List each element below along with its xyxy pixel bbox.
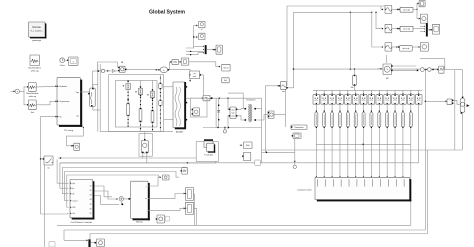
svg-text:Vab: Vab: [351, 87, 354, 89]
node title: [149, 10, 185, 16]
wire x376 branch: [375, 12, 383, 30]
load string LS14: [415, 90, 422, 163]
MPPT block pair: [204, 139, 215, 156]
svg-text:Ipv: Ipv: [76, 115, 78, 117]
wire x350.4 vertical: [349, 12, 351, 69]
wire DC bus left: [97, 64, 99, 132]
wire x287 vertical: [286, 6, 288, 86]
wire ctrl out3: [94, 196, 123, 206]
wire mux to scope3: [207, 49, 216, 51]
wire noise2 to PV Temperature: [36, 100, 57, 104]
wire bundle b2: [60, 161, 216, 188]
wire bundle b5: [67, 175, 161, 207]
wire corner y58.6: [420, 59, 445, 70]
row1 meter block: [420, 14, 427, 23]
sum S3: [160, 67, 167, 73]
svg-text:Un: Un: [59, 117, 61, 119]
load string LS5: [344, 90, 351, 177]
igbt leg3: [147, 81, 155, 111]
wire y152.3 stub: [262, 152, 295, 154]
load string LS6: [352, 90, 359, 177]
wire x265.3 vertical: [264, 86, 266, 153]
wire PV label to Pw block: [67, 127, 84, 147]
cap branch x218.7: [217, 98, 220, 127]
series component Z1: [229, 107, 238, 119]
svg-text:Ideal Random: Ideal Random: [28, 67, 41, 69]
load string LS12: [400, 90, 407, 177]
row1 wire c: [417, 9, 420, 19]
wire Z1 to T1: [237, 109, 244, 120]
subsystem PV string: [57, 78, 82, 132]
wire top dc feed: [93, 70, 102, 72]
wire long y162.8: [60, 162, 419, 164]
delay block: [181, 58, 189, 65]
wire feedback y62: [98, 62, 118, 71]
scope block low: [292, 133, 301, 138]
svg-text:Vpv: Vpv: [72, 183, 75, 185]
wire x371.8 branch: [372, 12, 384, 48]
block E scope: [156, 215, 165, 223]
inline tag block: [255, 160, 261, 165]
wire x216 vertical: [215, 98, 217, 127]
wire scope low down: [294, 138, 296, 162]
svg-text:Inverter: Inverter: [176, 131, 184, 134]
wire long y150: [262, 149, 463, 151]
controller block OnOff: [70, 180, 94, 224]
gain round A: [420, 68, 424, 72]
wire blockD out: [194, 194, 197, 225]
block aux display2: [222, 78, 230, 83]
wire load bottom bus: [316, 144, 411, 145]
wire converter bottom: [100, 131, 173, 133]
routing box VM2: [139, 134, 152, 157]
PI controller block: [190, 71, 201, 79]
wire ctrl out2: [94, 191, 118, 200]
snubber leg1: [127, 92, 130, 127]
load string LS10: [384, 90, 391, 177]
gain round B: [428, 68, 432, 72]
wire M1 out to inverter gate: [127, 69, 191, 81]
ground G1: [223, 127, 226, 133]
wire y233.5 long: [90, 150, 428, 239]
wire into sum S3: [156, 69, 161, 71]
transformer T1: [245, 100, 257, 123]
wire into machine: [377, 68, 382, 70]
wire long y158: [58, 157, 196, 159]
svg-text:S3: S3: [90, 195, 92, 197]
switch block SW1: [43, 156, 53, 169]
wire x454.8 down: [454, 70, 456, 150]
charge gain elem: [119, 197, 123, 204]
block two-out: [447, 99, 453, 105]
svg-text:Ts = 1e-005 s.: Ts = 1e-005 s.: [30, 31, 43, 33]
wire ctrl out1: [94, 186, 112, 197]
wire chain out: [444, 69, 455, 71]
wire bus feed elem V2: [353, 69, 357, 90]
row2 wire b: [413, 26, 425, 33]
wire bundle b1: [56, 159, 58, 183]
svg-text:Sun: Sun: [31, 112, 34, 114]
wire x261.5 vertical: [261, 98, 263, 163]
wire into battery: [124, 198, 131, 200]
wire machine top feed: [386, 55, 388, 63]
svg-text:Vb: Vb: [72, 194, 74, 196]
wire bundle b3: [62, 168, 186, 194]
wire bundle b4: [65, 172, 179, 201]
wire long top y6: [287, 5, 385, 7]
ground G2: [293, 163, 296, 169]
wire Gm bottom down: [461, 112, 463, 150]
wire bundle b6: [41, 212, 69, 215]
wire x92.5 down: [92, 71, 94, 88]
breaker block M1: [120, 62, 127, 73]
svg-text:[Vdc]: [Vdc]: [246, 145, 250, 147]
mux MX1: [205, 45, 207, 54]
wire Z2 to powermeter: [274, 113, 285, 115]
row1 wire b: [413, 2, 419, 10]
svg-text:Clock: Clock: [60, 65, 65, 67]
svg-text:Vdc: Vdc: [72, 213, 75, 215]
svg-text:Load bank control: Load bank control: [297, 189, 312, 192]
wire to delay block: [179, 61, 182, 63]
source Band Random noise 1: [26, 83, 39, 98]
wire last string down: [410, 144, 412, 225]
wire y230 long: [64, 230, 425, 240]
wire x285.4: [284, 89, 286, 127]
row2 wire a: [392, 28, 400, 30]
block C: [185, 188, 193, 201]
wire chain b: [431, 69, 438, 71]
load string LS9: [376, 90, 383, 177]
dc link elem top: [159, 75, 162, 90]
svg-text:S4: S4: [90, 199, 92, 201]
svg-text:S2: S2: [90, 190, 92, 192]
wire into switch: [40, 158, 43, 159]
svg-text:[Vdc]: [Vdc]: [173, 62, 177, 64]
machine out wires: [393, 66, 419, 71]
filter component: [192, 108, 200, 116]
wire inverter in bottom: [164, 119, 173, 121]
load string LS11: [392, 90, 399, 177]
wire y93 to T1: [228, 93, 243, 108]
goto Vdc read: [240, 142, 253, 149]
svg-text:white sig: white sig: [31, 69, 39, 72]
wire inverter in top: [164, 86, 173, 88]
routing box MPPT: [196, 142, 218, 162]
load string LS2: [321, 90, 328, 177]
filter box outline: [191, 98, 208, 117]
igbt leg2: [135, 81, 143, 109]
svg-text:On/Off Switch Controller: On/Off Switch Controller: [71, 221, 93, 224]
block D: [185, 202, 193, 214]
wire to Z1: [228, 98, 229, 129]
block A small: [163, 175, 170, 180]
svg-text:Ipv: Ipv: [72, 188, 74, 190]
bottom block F: [91, 239, 105, 247]
clock: [60, 58, 65, 67]
goto Vdc tag: [172, 60, 179, 65]
voltage measurement VM2: [141, 132, 148, 154]
machine block SM: [383, 64, 393, 80]
dc link elem bottom: [159, 78, 162, 132]
wire sum to noise sources: [20, 86, 29, 106]
snubber leg3: [151, 100, 154, 132]
powermeter block: [291, 125, 307, 130]
wire PV Vpv out: [80, 91, 89, 93]
svg-text:cont.: cont.: [193, 75, 197, 78]
load string LS3: [329, 90, 336, 177]
row2 scope: [432, 24, 439, 34]
wire long y69.1: [294, 68, 439, 69]
source Ideal Random white sig: [28, 55, 41, 72]
wire noise1 to PV Radiation: [36, 85, 57, 87]
wire y225.3 long: [57, 224, 411, 226]
wire x462.4 down: [455, 70, 463, 96]
wire sum2 to gain: [105, 70, 112, 71]
svg-text:powergui: powergui: [32, 39, 41, 42]
wire gain to breaker M1: [115, 67, 119, 72]
row1 gain block: [400, 7, 413, 12]
chain block: [439, 66, 444, 73]
row3 gain block: [400, 46, 413, 51]
svg-text:Discrete: Discrete: [32, 26, 41, 29]
wire VM1 stubs: [93, 85, 100, 111]
scope1: [199, 21, 205, 31]
svg-text:Vpv: Vpv: [76, 92, 79, 94]
block B small: [181, 168, 188, 174]
universal bridge Inverter: [173, 82, 187, 134]
wire delay to Vdc ref: [189, 62, 221, 68]
wire y101.3 to block: [425, 100, 447, 102]
mux MX2: [426, 23, 428, 36]
wire DC bus right: [99, 64, 101, 132]
load string LS1: [313, 90, 320, 177]
wire switch down: [44, 165, 46, 247]
load string LS8: [368, 90, 375, 177]
load bank control block: [297, 177, 411, 201]
svg-text:Vdc ref: Vdc ref: [223, 67, 229, 69]
mux bottom: [88, 239, 90, 247]
wire y240.3 arrow: [64, 239, 88, 241]
load string LS13: [407, 90, 414, 144]
wire to scope1: [194, 24, 198, 46]
row3 source block: [385, 43, 392, 52]
igbt leg1: [123, 81, 131, 104]
wire loop inner: [115, 81, 157, 128]
battery block: [131, 181, 150, 223]
meter elem Gm: [460, 96, 469, 113]
wire into RMS block: [265, 85, 280, 87]
svg-text:Powermeter: Powermeter: [294, 126, 304, 129]
wire PI out: [201, 75, 203, 95]
wire load bus y90.3: [313, 87, 422, 90]
row2 source block: [385, 24, 392, 33]
svg-text:Transformer: Transformer: [246, 100, 256, 102]
load string LS7: [360, 90, 367, 177]
svg-text:S7: S7: [90, 213, 92, 215]
scope2: [199, 33, 205, 39]
wire long y12.3: [294, 12, 373, 13]
wire batt out3: [148, 207, 185, 210]
gain small: [112, 69, 115, 72]
wire ports into controller: [57, 183, 68, 207]
wire mux feeds: [186, 46, 204, 56]
svg-text:PV string: PV string: [64, 129, 74, 132]
powergui block: [29, 22, 47, 42]
wire loop outer: [109, 75, 164, 132]
svg-text:white sig: white sig: [29, 95, 36, 98]
svg-text:Radiation: Radiation: [59, 85, 67, 88]
svg-text:rms: rms: [282, 91, 285, 93]
row1 scope top: [419, 0, 425, 6]
block Vdc ref display: [222, 64, 230, 71]
goto tag bottom-left: [49, 242, 55, 247]
svg-text:Global System: Global System: [149, 10, 185, 16]
display block: [69, 57, 79, 65]
svg-text:S5: S5: [90, 204, 92, 206]
load meter component Z2: [268, 111, 274, 118]
wire block to Gm: [453, 100, 459, 104]
wire T1 secondary: [256, 109, 267, 120]
row3 wire b: [412, 46, 420, 48]
wire trunk x40.5 to PV input 3: [41, 116, 58, 214]
aux block under: [242, 152, 251, 160]
source noise 2 Sun: [29, 100, 37, 114]
tiny tag near battery: [165, 216, 170, 221]
snubber leg2: [139, 97, 142, 132]
power calc block Pw: [72, 143, 79, 150]
wire batt out1: [148, 177, 160, 186]
wire to scope2: [193, 36, 198, 38]
wire into sum S1: [11, 90, 16, 92]
scope3: [216, 45, 222, 54]
row3 wire a: [392, 46, 400, 48]
RMS block: [280, 82, 286, 93]
load string LS4: [337, 90, 344, 177]
wire AC main y98.2: [186, 98, 262, 99]
wire y6 into row1: [381, 6, 383, 10]
svg-text:S1: S1: [90, 186, 92, 188]
svg-text:P Controller: P Controller: [204, 153, 213, 156]
svg-text:Temperature: Temperature: [59, 100, 69, 103]
sum S2: [101, 69, 104, 72]
row1 source block: [385, 5, 392, 13]
svg-text:S6: S6: [90, 209, 92, 211]
wire VM2 taps: [143, 153, 147, 163]
svg-text:Battery: Battery: [136, 221, 142, 224]
sum S1: [15, 89, 19, 93]
current measure block: [203, 95, 212, 100]
wire x425.3 long: [424, 70, 426, 230]
row1 wire a: [392, 8, 400, 10]
wire sum3 out: [168, 61, 172, 71]
wire chain a: [424, 69, 427, 70]
wire RMS out up: [286, 12, 294, 88]
row3 meter block: [420, 43, 428, 52]
voltage measurement VM1: [88, 88, 95, 107]
wire AC bottom y127.5: [203, 127, 262, 128]
wire clock to display: [65, 59, 69, 61]
wire batt out2: [148, 193, 185, 199]
row2 gain block: [400, 26, 413, 31]
svg-text:Band Random: Band Random: [26, 93, 39, 95]
row2 wire c: [428, 29, 433, 31]
